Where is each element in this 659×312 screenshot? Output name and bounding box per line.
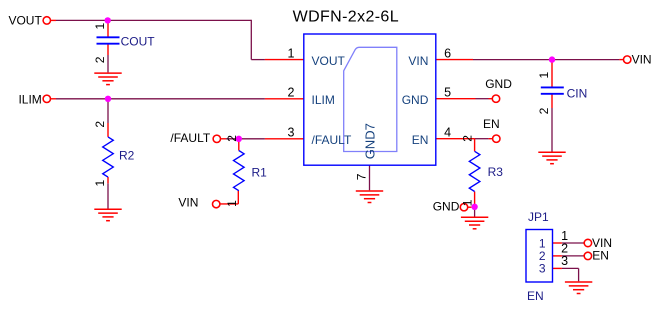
svg-text:2: 2: [537, 107, 551, 114]
svg-text:6: 6: [444, 47, 451, 61]
svg-text:1: 1: [93, 180, 107, 187]
svg-text:GND7: GND7: [363, 123, 378, 159]
svg-text:CIN: CIN: [567, 87, 588, 101]
svg-text:EN: EN: [483, 117, 500, 131]
svg-text:1: 1: [539, 236, 546, 250]
svg-text:1: 1: [288, 47, 295, 61]
svg-text:VIN: VIN: [632, 53, 652, 67]
svg-text:ILIM: ILIM: [312, 93, 335, 107]
svg-text:GND: GND: [433, 199, 460, 213]
svg-text:1: 1: [93, 23, 107, 30]
svg-text:1: 1: [225, 200, 239, 207]
svg-text:2: 2: [288, 86, 295, 100]
svg-text:VIN: VIN: [408, 54, 428, 68]
svg-text:1: 1: [537, 72, 551, 79]
svg-text:COUT: COUT: [121, 34, 156, 48]
svg-text:5: 5: [444, 86, 451, 100]
svg-text:3: 3: [288, 126, 295, 140]
svg-text:ILIM: ILIM: [18, 92, 41, 106]
svg-text:GND: GND: [485, 77, 512, 91]
svg-text:R2: R2: [119, 149, 135, 163]
svg-text:VIN: VIN: [178, 196, 198, 210]
svg-text:GND: GND: [402, 93, 429, 107]
svg-text:R3: R3: [488, 165, 504, 179]
svg-text:VOUT: VOUT: [312, 54, 346, 68]
svg-text:2: 2: [460, 135, 474, 142]
svg-text:WDFN-2x2-6L: WDFN-2x2-6L: [293, 8, 399, 25]
svg-text:1: 1: [460, 199, 474, 206]
svg-text:VOUT: VOUT: [8, 14, 42, 28]
svg-text:EN: EN: [527, 289, 544, 303]
svg-text:1: 1: [561, 229, 568, 243]
svg-text:/FAULT: /FAULT: [312, 133, 352, 147]
svg-text:3: 3: [539, 262, 546, 276]
svg-text:EN: EN: [592, 249, 609, 263]
svg-text:7: 7: [355, 173, 369, 180]
svg-text:3: 3: [561, 254, 568, 268]
svg-text:/FAULT: /FAULT: [170, 131, 210, 145]
svg-text:4: 4: [444, 126, 451, 140]
svg-text:R1: R1: [252, 165, 268, 179]
svg-text:2: 2: [93, 121, 107, 128]
svg-text:JP1: JP1: [528, 210, 549, 224]
svg-text:EN: EN: [412, 133, 429, 147]
svg-text:2: 2: [93, 56, 107, 63]
svg-text:2: 2: [225, 135, 239, 142]
